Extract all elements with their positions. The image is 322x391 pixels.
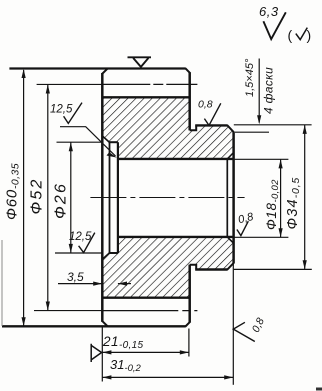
hub chamfer top-right [227,125,234,132]
hatch lower section [102,237,233,298]
svg-text:): ) [307,27,312,43]
ext line phi26 top [57,141,103,143]
phi26 chamfer circle [109,142,111,253]
svg-text:0,8: 0,8 [198,99,213,111]
roughness 12.5 top shelf [60,127,116,156]
groove bottom [190,265,197,270]
arrow phi18 down [279,228,283,237]
ext line phi34 top [234,124,312,126]
pitch line upper ext [37,83,103,85]
root line upper [102,96,189,98]
chamfer top-left [102,68,108,74]
bore top line [118,158,234,160]
bore chamfer circle [226,159,228,237]
arrow 21 right [180,350,189,354]
groove top [190,125,197,130]
ext rim face below [188,329,190,357]
axis center line [90,197,244,199]
ext left face below [101,327,103,382]
dim line 3.5 right [118,283,131,285]
dim line phi26 [70,142,72,252]
hub chamfer bottom-right [227,263,234,270]
hub bottom surface [195,268,227,270]
arrow phi26 down [69,244,73,253]
roughness 0.8 hub check [204,103,220,125]
arrow 21 left [102,350,111,354]
arrow phi34 down [303,260,307,269]
phi26 chamfer top [102,136,109,143]
svg-text:(: ( [288,27,293,43]
svg-text:Ф52: Ф52 [29,177,46,214]
arrow phi60 up [22,69,26,78]
svg-text:4 фаски: 4 фаски [262,67,276,114]
pitch line lower ext [34,310,102,312]
roughness (check) small [296,28,308,40]
svg-text:Ф26: Ф26 [53,182,70,219]
faint scan line left [1,240,3,326]
hatch upper section [102,97,233,159]
arrow 31 right [224,375,233,379]
roughness 12.5 top check [64,103,82,124]
rim right face upper [188,72,191,130]
datum triangle [91,344,101,362]
pitch line upper dash-dot [102,83,197,85]
svg-text:6,3: 6,3 [259,4,279,19]
svg-text:12,5: 12,5 [50,104,73,116]
right face [232,132,235,264]
svg-text:3,5: 3,5 [67,270,84,284]
arrow phi52 down [46,302,50,311]
bore right chamfer bottom [227,237,233,243]
chamfer bottom-right [185,321,190,326]
dim line 21 [102,351,189,353]
chamfer bottom-left [102,321,108,327]
phi26 bottom line [109,252,118,254]
surface mark triangle on rim top [128,57,152,67]
dim line phi52 [47,85,49,311]
arrow phi18 up [279,159,283,168]
svg-text:12,5: 12,5 [69,231,92,243]
arrow 3.5 right-point [93,282,102,286]
ext line phi18 bottom [234,236,289,238]
dim line phi34 [304,125,306,269]
rim right face lower [188,265,191,323]
ext line phi18 top [234,158,289,160]
ext line phi26 bottom [55,252,102,254]
dim line 3.5 left [58,283,102,285]
phi26 top line [109,141,118,143]
arrow phi34 up [303,125,307,134]
chamfer extent line [235,131,269,133]
counterbore face [117,142,119,253]
bore right chamfer top [227,153,233,159]
pitch line lower dash-dot [102,310,197,312]
roughness 12.5 bottom check [79,233,95,253]
outline bottom face [2,325,186,327]
arrow phi52 up [46,84,50,93]
roughness 0.8 right-face check [233,322,255,341]
left face [101,73,104,322]
arrow phi60 down [22,317,26,326]
dim line 31 [102,376,233,378]
chamfer top-right [185,68,190,73]
ext line phi34 bottom [234,268,312,270]
roughness 0.8 bore check [237,221,248,235]
chamfer leader [258,59,260,123]
arrow chamfer leader down [257,115,261,124]
dim line phi60 [23,70,25,326]
outline top face [9,67,185,69]
arrow 31 left [102,375,111,379]
arrow phi26 up [69,142,73,151]
root line lower [102,297,189,299]
svg-text:1,5×45°: 1,5×45° [244,58,256,97]
arrow 12.5 leader [107,152,117,157]
arrow 3.5 left-point [118,282,127,286]
bore bottom line [118,236,234,238]
hub top surface [195,124,227,126]
roughness 6.3 check [263,12,285,39]
dim line phi18 [280,160,282,238]
ext right face below [232,264,234,385]
phi26 chamfer bottom [102,253,109,259]
